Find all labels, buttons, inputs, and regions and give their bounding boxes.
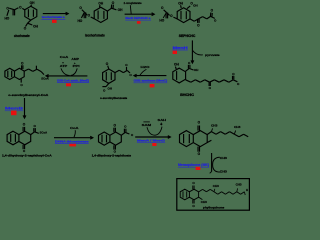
structure o-succinylbenzoyl-CoA <box>5 61 50 87</box>
svg-text:O: O <box>197 23 200 27</box>
svg-text:O: O <box>209 86 212 90</box>
svg-text:CH3: CH3 <box>213 184 220 188</box>
structure o-succinylbenzoate <box>102 62 132 93</box>
svg-text:O: O <box>114 123 117 127</box>
svg-text:O: O <box>237 82 240 86</box>
svg-text:1,4-dihydroxy-2-naphthoyl-CoA: 1,4-dihydroxy-2-naphthoyl-CoA <box>2 153 53 157</box>
svg-text:O: O <box>129 73 132 77</box>
structure SHCHC <box>173 61 240 90</box>
svg-text:SEPHCHC: SEPHCHC <box>179 34 196 38</box>
svg-text:OH: OH <box>178 2 183 6</box>
cofactor red r9 <box>196 167 201 170</box>
svg-text:DHNA thioesterase: DHNA thioesterase <box>55 139 89 143</box>
svg-text:CoA: CoA <box>70 126 80 130</box>
svg-text:CH3: CH3 <box>220 170 227 174</box>
svg-text:O: O <box>192 204 195 208</box>
wire H2O branch MenC <box>140 69 146 75</box>
arrow SEPHCHC synthase MenD <box>125 13 155 15</box>
svg-text:OH: OH <box>108 87 113 91</box>
arrow OSB-CoA synthetase left MenE <box>46 75 87 77</box>
svg-text:OH: OH <box>98 1 103 5</box>
svg-text:O: O <box>24 27 27 31</box>
cofactor red r8 <box>152 143 156 146</box>
svg-text:CH3: CH3 <box>234 125 241 129</box>
svg-text:CH3: CH3 <box>201 200 208 204</box>
structure 1,4-dihydroxy-2-naphthoate <box>99 123 134 153</box>
wire CoA branch thioesterase <box>74 130 75 137</box>
cofactor red r4 <box>150 84 155 87</box>
cofactor red r3 <box>173 51 177 54</box>
svg-text:HO: HO <box>159 19 164 23</box>
cofactor red r2 CO2 <box>137 21 141 24</box>
svg-text:O: O <box>131 133 134 137</box>
svg-text:O: O <box>188 61 191 65</box>
svg-text:OH: OH <box>33 25 38 29</box>
svg-text:2-oxoglutarate: 2-oxoglutarate <box>124 1 142 5</box>
svg-text:H2O: H2O <box>141 65 151 69</box>
wire cofactor into arrow MenD <box>129 5 132 14</box>
svg-text:O: O <box>124 125 127 129</box>
svg-text:O: O <box>232 72 235 76</box>
svg-text:O: O <box>88 14 91 18</box>
svg-text:O: O <box>211 9 214 13</box>
svg-text:O: O <box>103 88 106 92</box>
svg-text:O: O <box>170 14 173 18</box>
wire pyruvate branch <box>192 50 202 55</box>
svg-text:O: O <box>125 63 128 67</box>
structure chorismate <box>5 1 39 31</box>
arrow SHCHC synthase down MenH <box>191 40 193 63</box>
svg-text:CH3: CH3 <box>211 124 218 128</box>
cofactor red r5 <box>66 83 71 86</box>
svg-text:CH3: CH3 <box>236 182 243 186</box>
structure menaquinone <box>180 121 249 157</box>
svg-text:ATP: ATP <box>60 64 68 68</box>
svg-text:phylloquinone: phylloquinone <box>203 205 225 209</box>
box phylloquinone frame <box>177 179 250 211</box>
svg-text:H: H <box>246 188 248 192</box>
svg-text:chorismate: chorismate <box>14 34 30 38</box>
svg-text:O: O <box>21 61 24 65</box>
svg-text:MenA / MenG: MenA / MenG <box>137 139 166 143</box>
bracket repeat unit n <box>210 153 228 174</box>
svg-text:1,4-dihydroxy-2-naphthoate: 1,4-dihydroxy-2-naphthoate <box>92 154 132 158</box>
svg-text:HO: HO <box>5 17 10 21</box>
arrow isochorismate synthase <box>43 13 68 15</box>
svg-text:MenB: MenB <box>5 107 24 111</box>
svg-text:o-succinylbenzoyl-CoA: o-succinylbenzoyl-CoA <box>8 93 49 97</box>
svg-text:O: O <box>198 121 201 125</box>
structure phylloquinone <box>180 181 248 208</box>
svg-text:OH: OH <box>118 8 123 12</box>
wire cofactor curves MenE <box>61 68 70 75</box>
svg-text:SAH: SAH <box>158 118 167 122</box>
svg-text:CH3: CH3 <box>220 156 227 160</box>
svg-text:PPi: PPi <box>73 64 80 68</box>
wire SAM SAH curve <box>147 127 162 136</box>
svg-text:SCoA: SCoA <box>41 76 49 80</box>
cofactor red r7 <box>69 144 76 147</box>
svg-text:SHCHC: SHCHC <box>180 93 195 97</box>
svg-text:HO: HO <box>78 19 83 23</box>
cofactor red r6 <box>11 111 17 116</box>
svg-text:o-succinylbenzoate: o-succinylbenzoate <box>100 96 127 100</box>
arrow OSB synthase left MenC <box>134 75 166 77</box>
svg-text:pyruvate: pyruvate <box>205 53 220 57</box>
svg-text:O: O <box>112 1 115 5</box>
structure isochorismate <box>78 1 124 23</box>
svg-text:O: O <box>20 83 23 87</box>
svg-text:O: O <box>19 6 22 10</box>
svg-text:OH: OH <box>193 3 198 7</box>
arrow DHNA-CoA synthase down MenB <box>24 98 26 118</box>
svg-text:O: O <box>192 181 195 185</box>
svg-text:O: O <box>106 62 109 66</box>
svg-text:OH: OH <box>194 68 199 72</box>
svg-text:O: O <box>161 6 164 10</box>
svg-text:isochorismate: isochorismate <box>85 34 105 38</box>
arrow methyltransferase MenA MenG <box>135 136 170 138</box>
svg-text:Menaquinone (MK): Menaquinone (MK) <box>178 163 210 167</box>
svg-text:OSB synthase (MenC): OSB synthase (MenC) <box>134 79 168 83</box>
svg-text:OH: OH <box>30 1 35 5</box>
svg-text:CoA: CoA <box>60 55 70 59</box>
svg-text:MenH: MenH <box>173 46 189 50</box>
structure 1,4-dihydroxy-2-naphthoyl-CoA <box>7 122 48 153</box>
svg-text:SCoA: SCoA <box>40 130 48 134</box>
cofactor red r1 <box>52 20 57 23</box>
svg-text:O: O <box>23 122 26 126</box>
svg-text:SAM: SAM <box>142 123 152 127</box>
svg-text:OH: OH <box>174 63 179 67</box>
svg-text:O: O <box>34 124 37 128</box>
structure SEPHCHC <box>159 1 217 27</box>
arrow DHNA-CoA thioesterase <box>54 137 93 139</box>
svg-text:O: O <box>79 6 82 10</box>
svg-text:O: O <box>198 152 201 156</box>
svg-text:MenD SEPHCHC s.: MenD SEPHCHC s. <box>125 16 151 20</box>
svg-text:OSB-CoA synth. (MenE): OSB-CoA synth. (MenE) <box>57 78 89 82</box>
svg-text:O: O <box>214 19 217 23</box>
svg-text:isochorismate s.: isochorismate s. <box>42 15 66 19</box>
